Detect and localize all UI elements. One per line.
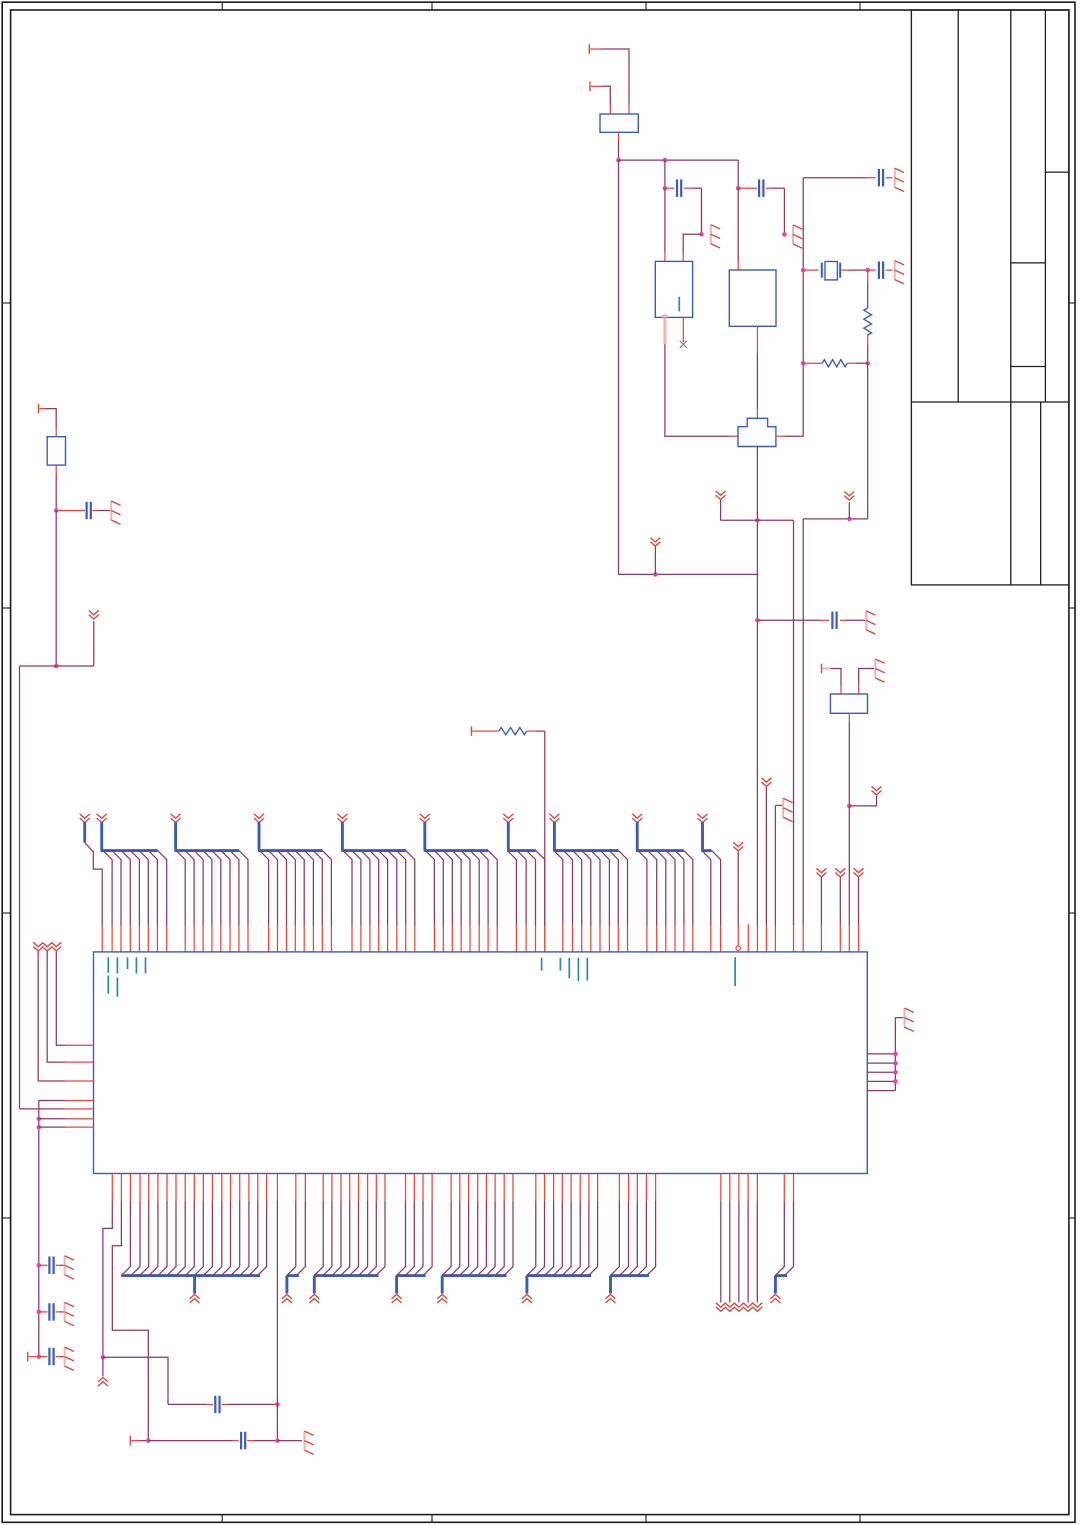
wire (38, 951, 93, 1081)
node Q (847, 804, 852, 809)
wire (737, 160, 739, 188)
terminal T5 (28, 1352, 37, 1362)
capacitor C4 (869, 261, 893, 279)
node I (801, 268, 806, 273)
terminal T1 (589, 44, 601, 54)
bus entries (103, 851, 167, 952)
node B (54, 664, 59, 669)
wire (859, 669, 874, 695)
bus entries (121, 1174, 266, 1276)
node T2 (37, 1354, 42, 1359)
bus BB5 (437, 1276, 506, 1303)
wire (55, 511, 57, 667)
node P (755, 618, 760, 623)
ground (905, 1008, 914, 1031)
bus entries (554, 851, 628, 952)
resistor R1 (472, 726, 545, 736)
node H (782, 232, 787, 237)
node V (101, 1355, 106, 1360)
node U3 (893, 1079, 898, 1084)
crystal Y1 (738, 418, 776, 446)
terminal T2 (590, 82, 601, 92)
bus B6 (420, 814, 488, 851)
wire (618, 160, 620, 574)
power chevron (650, 538, 660, 575)
capacitor C1 (666, 179, 702, 197)
bus BB1 (121, 1276, 260, 1303)
power chevron (854, 868, 864, 952)
power chevron (835, 868, 845, 952)
bus BB7 (606, 1276, 650, 1303)
node G (736, 186, 741, 191)
wire (602, 49, 630, 114)
ground (65, 1347, 74, 1370)
node E (663, 186, 668, 191)
bus B4 (254, 814, 322, 851)
oscillator U3 (655, 261, 692, 317)
wire (683, 234, 701, 261)
node M (653, 572, 658, 577)
node K (865, 361, 870, 366)
capacitor C5 (168, 1396, 277, 1414)
wire (103, 1357, 168, 1404)
capacitor C11 (758, 612, 865, 630)
wire (601, 86, 610, 114)
bus entries (314, 1174, 385, 1276)
bus entries (527, 1174, 598, 1276)
bus entries (176, 851, 248, 952)
node T1 (37, 1310, 42, 1315)
resistor R4 (47, 437, 65, 465)
pin number marks (108, 957, 735, 997)
wire (803, 177, 876, 179)
wire (665, 344, 738, 436)
power chevron (844, 492, 854, 519)
wire (39, 1126, 94, 1128)
bus BB8 (770, 1276, 787, 1303)
wire (721, 499, 794, 520)
power chevron (98, 1357, 108, 1386)
wire (793, 520, 795, 952)
wire (848, 806, 850, 952)
no-connect X (680, 341, 687, 348)
wire (277, 1440, 302, 1442)
wire (867, 363, 869, 519)
bus B10 (698, 814, 712, 851)
node O (847, 517, 852, 522)
IC right pins (867, 1018, 903, 1091)
wire (544, 731, 546, 952)
node U0 (893, 1052, 898, 1057)
ground (895, 261, 904, 284)
ground (866, 611, 875, 634)
wire (thick lead) (663, 317, 666, 344)
bus BB6 (522, 1276, 591, 1303)
wire (39, 1118, 94, 1120)
bus B5 (337, 814, 405, 851)
ground (111, 501, 120, 524)
wire (618, 132, 620, 160)
component U2 (filter) (600, 114, 638, 132)
bubble pin wire (733, 842, 743, 950)
power chevron (849, 786, 881, 806)
wire (619, 159, 739, 161)
capacitor C2 (739, 179, 784, 197)
wire (664, 160, 666, 188)
wire (619, 573, 758, 575)
crystal Y2 (804, 262, 867, 280)
node S (37, 1125, 42, 1130)
node N (755, 518, 760, 523)
node D (663, 158, 668, 163)
terminal T6 (130, 1436, 140, 1446)
bus B7 (503, 814, 536, 851)
node J (865, 268, 870, 273)
bus B3 (171, 814, 239, 851)
wire (802, 519, 804, 952)
node W (275, 1402, 280, 1407)
ground (875, 659, 884, 682)
wire (103, 1174, 112, 1358)
no-connect pin (682, 317, 684, 342)
node F (699, 232, 704, 237)
bus entries (638, 851, 693, 952)
wire (737, 188, 739, 270)
wire (831, 669, 842, 695)
bus entries (260, 851, 332, 952)
bus entries (702, 851, 721, 952)
node C (616, 158, 621, 163)
wire (783, 188, 785, 234)
terminal T4 (822, 664, 831, 674)
resistor R2 (864, 270, 872, 363)
bus entries (287, 1174, 306, 1276)
bus B8 (549, 814, 618, 851)
capacitor C3 (879, 169, 893, 187)
oscillator U4 (729, 270, 776, 326)
ground (65, 1256, 74, 1279)
wire (47, 951, 93, 1062)
IC U1 (94, 952, 868, 1174)
wire (56, 951, 93, 1045)
wire (19, 666, 21, 1109)
wire (55, 465, 57, 510)
wire (664, 188, 666, 261)
wire (20, 621, 94, 666)
pin stub (747, 924, 749, 952)
title block (911, 10, 1069, 585)
wire (20, 1108, 94, 1110)
power chevron (716, 491, 726, 500)
bus entries (610, 1174, 655, 1276)
wire (39, 1101, 94, 1357)
ground (304, 1431, 313, 1454)
wire (756, 447, 758, 952)
ground (793, 225, 802, 248)
node L (801, 361, 806, 366)
wire (776, 178, 803, 437)
bus entries (343, 851, 415, 952)
wire (756, 326, 758, 418)
capacitor C6 (148, 1432, 277, 1450)
bus entries (397, 1174, 433, 1276)
bus BB3 (309, 1276, 378, 1303)
ground (895, 168, 904, 191)
wire (276, 1174, 278, 1441)
wire (848, 713, 850, 806)
node U1 (893, 1061, 898, 1066)
node X2 (275, 1438, 280, 1443)
capacitor C7 (57, 502, 110, 519)
net chevrons (left bundle) (33, 942, 61, 951)
bus B9 (632, 814, 684, 851)
power chevron (816, 868, 826, 952)
wire (701, 188, 703, 234)
bus BB2 (282, 1276, 299, 1303)
ground (711, 225, 720, 248)
ground (65, 1302, 74, 1325)
node X1 (146, 1438, 151, 1443)
capacitor C8 (40, 1257, 64, 1275)
power chevron (89, 610, 99, 619)
terminal T3 (39, 404, 46, 414)
bus entries (507, 851, 544, 952)
wire (803, 518, 868, 520)
bus BB4 (392, 1276, 426, 1303)
wire (45, 409, 56, 437)
bus entries (775, 1174, 793, 1276)
capacitor C9 (40, 1303, 64, 1321)
node A (54, 508, 59, 513)
capacitor C10 (40, 1348, 64, 1366)
bus entries (442, 1174, 513, 1276)
wire (140, 1440, 148, 1442)
bus entries (425, 851, 497, 952)
resistor R3 (804, 360, 867, 367)
bus entry B1 (80, 814, 103, 952)
power chevron (761, 778, 771, 952)
net chevrons (right bundle) (716, 1174, 763, 1312)
wire (112, 1174, 148, 1441)
node T0 (37, 1263, 42, 1268)
node R (37, 1116, 42, 1121)
node U2 (893, 1070, 898, 1075)
ground (775, 798, 792, 952)
bus B2 (97, 814, 158, 851)
component U5 (830, 694, 867, 713)
